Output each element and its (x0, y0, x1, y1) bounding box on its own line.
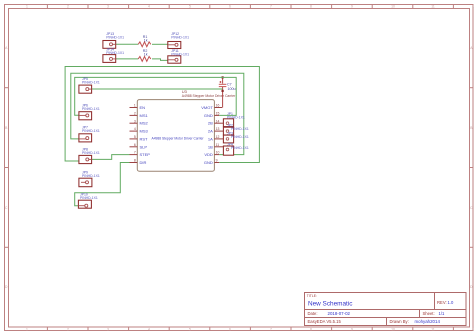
svg-text:9: 9 (351, 5, 353, 9)
svg-text:5: 5 (189, 327, 191, 331)
svg-text:11: 11 (431, 327, 435, 331)
svg-text:A4988 Stepper Motor Driver Car: A4988 Stepper Motor Driver Carrier (182, 94, 236, 98)
svg-text:PINHD-1X1: PINHD-1X1 (171, 35, 189, 39)
svg-text:10: 10 (391, 5, 395, 9)
svg-text:Drawn By:: Drawn By: (390, 319, 409, 324)
svg-text:2A: 2A (208, 129, 213, 134)
svg-text:1/1: 1/1 (439, 311, 445, 316)
svg-text:PINHD-1X1: PINHD-1X1 (82, 174, 100, 178)
svg-text:2018-07-02: 2018-07-02 (328, 311, 351, 316)
svg-text:1.0: 1.0 (448, 300, 454, 305)
svg-text:8: 8 (310, 5, 312, 9)
svg-text:PINHD-1X1: PINHD-1X1 (231, 127, 249, 131)
svg-text:3: 3 (107, 327, 109, 331)
svg-text:1: 1 (26, 5, 28, 9)
svg-text:PINHD-1X1: PINHD-1X1 (82, 107, 100, 111)
svg-text:2: 2 (67, 5, 69, 9)
junction dot cap bottom / VMOT (222, 90, 224, 92)
svg-text:6: 6 (134, 143, 136, 147)
junction dot cap top (222, 76, 224, 78)
svg-text:STEP: STEP (140, 152, 151, 157)
svg-text:PINHD-1X1: PINHD-1X1 (171, 52, 189, 56)
svg-text:Date:: Date: (308, 311, 318, 316)
connector JP4 (223, 142, 248, 155)
connector JP3 (223, 132, 248, 143)
svg-text:PINHD-1X1: PINHD-1X1 (106, 51, 124, 55)
connector JP5 (79, 77, 100, 93)
svg-text:New Schematic: New Schematic (308, 300, 353, 307)
svg-text:4: 4 (148, 327, 150, 331)
svg-text:2: 2 (67, 327, 69, 331)
svg-text:MS2: MS2 (140, 121, 149, 126)
svg-text:4: 4 (134, 127, 136, 131)
svg-text:12: 12 (216, 135, 220, 139)
svg-text:1B: 1B (208, 144, 213, 149)
connector JP9 (79, 170, 100, 186)
svg-text:1: 1 (134, 104, 136, 108)
wire R2 to JP11 (152, 59, 168, 61)
svg-text:Sheet:: Sheet: (423, 311, 435, 316)
svg-text:14: 14 (216, 119, 220, 123)
svg-text:100u: 100u (228, 87, 236, 91)
connector JP10 (78, 192, 97, 208)
connector JP8 (79, 147, 100, 163)
svg-text:16: 16 (216, 104, 220, 108)
title block texts (307, 294, 454, 324)
svg-text:7: 7 (134, 151, 136, 155)
svg-text:1k: 1k (144, 38, 148, 42)
svg-text:13: 13 (216, 127, 220, 131)
connector JP2 (223, 123, 248, 135)
connector JP13 (103, 32, 124, 49)
frame row letters (5, 46, 473, 289)
svg-text:6: 6 (229, 5, 231, 9)
svg-text:10: 10 (391, 327, 395, 331)
wire JP5 to VMOT/cap (92, 88, 223, 90)
svg-text:RST: RST (140, 136, 149, 141)
svg-text:8: 8 (134, 159, 136, 163)
connector JP11 (168, 49, 189, 63)
svg-text:EasyEDA V5.5.15: EasyEDA V5.5.15 (308, 319, 342, 324)
svg-text:1k: 1k (144, 53, 148, 57)
connector JP1 (223, 112, 244, 127)
frame ticks right (470, 88, 473, 248)
frame ticks top (47, 4, 453, 8)
svg-text:MS3: MS3 (140, 129, 149, 134)
IC U3 left pin numbers (134, 104, 136, 163)
IC U3 box (137, 89, 236, 171)
svg-text:SLP: SLP (140, 144, 148, 149)
svg-text:4: 4 (148, 5, 150, 9)
svg-text:GND: GND (204, 113, 213, 118)
resistor R2 (138, 49, 151, 61)
svg-text:1: 1 (26, 327, 28, 331)
capacitor C7 (219, 77, 236, 107)
svg-text:A4988 Stepper Motor Driver Car: A4988 Stepper Motor Driver Carrier (152, 136, 205, 140)
svg-text:11: 11 (216, 143, 220, 147)
svg-text:9: 9 (351, 327, 353, 331)
wire JP13 to R1 (116, 43, 138, 45)
svg-text:9: 9 (216, 159, 218, 163)
svg-text:mohyah2014: mohyah2014 (415, 319, 441, 324)
wire net VDD rect: left leg to JP7 (71, 73, 244, 154)
svg-text:VMOT: VMOT (201, 105, 213, 110)
svg-text:TITLE:: TITLE: (307, 294, 317, 298)
svg-text:PINHD-1X1: PINHD-1X1 (227, 115, 245, 119)
IC U3 right pin stubs (214, 108, 223, 163)
frame ticks bottom (47, 327, 453, 331)
svg-text:2B: 2B (208, 121, 213, 126)
IC U3 left pin names (140, 105, 151, 165)
svg-text:PINHD-1X1: PINHD-1X1 (80, 196, 98, 200)
title block (305, 293, 467, 326)
svg-text:8: 8 (310, 327, 312, 331)
svg-text:7: 7 (270, 5, 272, 9)
svg-text:PINHD-1X1: PINHD-1X1 (82, 151, 100, 155)
frame ticks left (4, 88, 8, 248)
svg-text:7: 7 (270, 327, 272, 331)
resistor R1 (138, 35, 151, 47)
svg-text:DIR: DIR (140, 160, 147, 165)
svg-text:3: 3 (134, 119, 136, 123)
svg-text:EN: EN (140, 105, 146, 110)
IC U3 right pin numbers (216, 104, 220, 163)
wire R1 to JP12 (152, 43, 168, 45)
svg-text:3: 3 (107, 5, 109, 9)
svg-text:10: 10 (216, 151, 220, 155)
svg-text:GND: GND (204, 160, 213, 165)
svg-text:MS1: MS1 (140, 113, 149, 118)
connector JP14 (103, 48, 124, 63)
svg-text:PINHD-1X1: PINHD-1X1 (106, 35, 124, 39)
svg-text:5: 5 (134, 135, 136, 139)
IC U3 right pin names (201, 105, 213, 165)
svg-text:5: 5 (189, 5, 191, 9)
svg-text:6: 6 (229, 327, 231, 331)
svg-text:PINHD-1X1: PINHD-1X1 (82, 81, 100, 85)
svg-text:VDD: VDD (204, 152, 213, 157)
svg-text:PINHD-1X1: PINHD-1X1 (231, 146, 249, 150)
wire DIR to JP10 (75, 163, 130, 206)
svg-text:2: 2 (134, 112, 136, 116)
svg-text:11: 11 (431, 5, 435, 9)
IC U3 left pin stubs (130, 108, 138, 163)
connector JP6 (79, 104, 100, 120)
wire JP8 to STEP (92, 155, 130, 160)
svg-text:PINHD-1X1: PINHD-1X1 (231, 135, 249, 139)
svg-text:1A: 1A (208, 136, 213, 141)
svg-text:15: 15 (216, 112, 220, 116)
connector JP7 (79, 126, 100, 142)
wire JP14 to R2 (116, 58, 138, 60)
wire net GND outer rect: left leg to JP8 (65, 67, 259, 163)
svg-text:REV:: REV: (437, 300, 447, 305)
wire net GND inner rect: left leg to JP6 (75, 77, 237, 115)
connector JP12 (168, 32, 189, 49)
svg-text:PINHD-1X1: PINHD-1X1 (82, 129, 100, 133)
